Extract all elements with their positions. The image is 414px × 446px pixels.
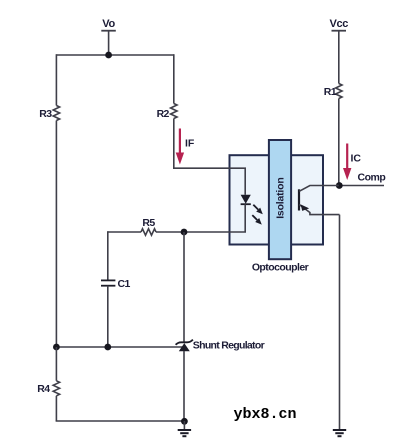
wire LED anode inside — [230, 168, 246, 195]
svg-text:Isolation: Isolation — [275, 177, 287, 218]
current arrow IC — [346, 144, 348, 170]
wire left branch middle — [55, 121, 57, 348]
ground left — [183, 421, 185, 430]
shunt regulator U2 — [176, 340, 193, 345]
node ground junction — [181, 418, 188, 425]
node R5 junction — [181, 229, 188, 236]
wire LED cathode inside — [230, 204, 246, 232]
wire left branch lower — [55, 347, 57, 381]
resistor R2 — [171, 104, 177, 119]
wire shunt regulator cathode — [183, 232, 185, 342]
phototransistor collector — [299, 186, 339, 192]
svg-text:Shunt Regulator: Shunt Regulator — [193, 339, 265, 351]
svg-text:IF: IF — [185, 138, 195, 150]
phototransistor Q1 base bar — [298, 189, 300, 210]
svg-text:R4: R4 — [37, 383, 50, 395]
svg-text:Optocoupler: Optocoupler — [252, 262, 309, 274]
node left mid junction — [53, 344, 60, 351]
wire left branch upper — [55, 54, 57, 105]
resistor R3 — [53, 106, 59, 121]
svg-text:R5: R5 — [142, 217, 155, 229]
wire C1 branch lower — [107, 286, 109, 347]
ground right — [333, 429, 346, 431]
isolation barrier — [269, 140, 291, 259]
resistor R1 — [336, 84, 342, 99]
wire C1 branch upper — [107, 231, 109, 280]
optocoupler U1 body — [230, 155, 324, 244]
svg-text:C1: C1 — [118, 278, 131, 290]
wire bottom bus — [56, 420, 185, 422]
svg-text:R3: R3 — [39, 108, 52, 120]
wire top bus — [56, 54, 173, 56]
svg-text:Vcc: Vcc — [329, 18, 348, 30]
node Comp — [336, 182, 343, 189]
wire emitter to ground — [339, 215, 341, 430]
wire Vcc stub — [338, 31, 340, 84]
svg-text:R1: R1 — [324, 86, 337, 98]
svg-text:Vo: Vo — [102, 18, 115, 30]
LED D1 — [241, 195, 251, 204]
svg-text:Comp: Comp — [358, 172, 386, 184]
wire R5 to LED cathode — [156, 231, 230, 233]
wire Vo stub — [108, 31, 110, 55]
light arrow 2 — [252, 215, 257, 220]
wire R2 to optocoupler anode — [174, 119, 230, 169]
resistor R5 — [141, 229, 156, 235]
resistor R4 — [53, 381, 59, 396]
wire R2 branch upper — [173, 54, 175, 103]
wire mid bus to shunt regulator — [56, 346, 184, 348]
node C1 mid junction — [104, 344, 111, 351]
phototransistor emitter — [299, 205, 339, 215]
capacitor C1 — [101, 279, 115, 281]
wire R5 left corner — [108, 231, 141, 233]
svg-text:IC: IC — [351, 153, 362, 165]
current arrow IF — [179, 129, 181, 154]
wire left branch bottom — [55, 396, 57, 421]
light arrow 1 — [253, 205, 258, 210]
svg-text:ybx8.cn: ybx8.cn — [234, 406, 297, 423]
wire R1 to Comp node — [338, 99, 340, 186]
wire shunt regulator anode — [183, 351, 185, 421]
node Vo junction — [105, 52, 112, 59]
wire Comp output — [339, 185, 384, 187]
svg-text:R2: R2 — [157, 108, 170, 120]
